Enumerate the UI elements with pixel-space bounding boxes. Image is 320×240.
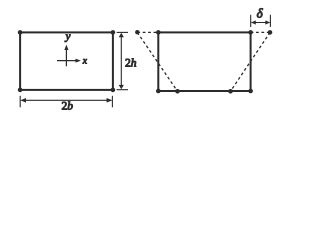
dimension delta left arrowhead	[251, 20, 256, 24]
extension line left for delta	[250, 15, 252, 27]
dimension delta right arrowhead	[265, 20, 270, 24]
dashed deformed left side (tilted)	[137, 32, 177, 91]
svg-text:x: x	[82, 57, 88, 67]
extension line right-top for 2h	[117, 31, 128, 33]
dimension 2h top arrowhead	[119, 33, 124, 37]
corner dot top-left (left plate)	[18, 30, 23, 35]
corner dot bottom-left (right plate)	[156, 89, 161, 94]
svg-text:2b: 2b	[62, 100, 74, 112]
y-axis arrowhead	[64, 45, 68, 50]
dashed deformed top edge extension left	[137, 31, 158, 33]
deformed corner dot top-right outer	[268, 30, 273, 35]
right plate rectangle (undeformed, solid)	[158, 32, 250, 91]
y-axis shaft	[65, 50, 67, 67]
corner dot bottom-left (left plate)	[18, 88, 23, 93]
extension line below bottom-right for 2b	[111, 96, 113, 108]
dimension line 2h	[120, 34, 122, 88]
extension line right for delta	[269, 15, 271, 27]
deformed corner dot bottom-left inner	[175, 89, 180, 94]
dimension line 2b	[22, 99, 112, 101]
deformed corner dot bottom-right inner	[228, 89, 233, 94]
corner dot bottom-right (right plate)	[248, 89, 253, 94]
deformed corner dot top-left outer	[135, 30, 139, 34]
corner dot top-left (right plate)	[156, 30, 161, 35]
corner dot bottom-right (left plate)	[111, 88, 116, 93]
x-axis shaft	[57, 60, 76, 62]
corner dot top-right (right plate)	[248, 30, 253, 35]
x-axis arrowhead	[76, 59, 81, 63]
dimension 2b left arrowhead	[20, 98, 26, 103]
extension line right-bottom for 2h	[117, 89, 128, 91]
left plate rectangle (2b x 2h)	[20, 32, 113, 90]
dashed deformed right side (tilted)	[231, 32, 271, 91]
dimension 2h bottom arrowhead	[119, 85, 124, 89]
dimension 2b right arrowhead	[107, 98, 113, 103]
corner dot top-right (left plate)	[111, 30, 116, 35]
svg-text:y: y	[65, 31, 71, 43]
dashed deformed top edge extension right	[251, 31, 270, 33]
dimension line delta	[252, 22, 270, 24]
svg-text:2h: 2h	[125, 57, 137, 69]
svg-text:δ: δ	[257, 6, 264, 21]
extension line below bottom-left for 2b	[19, 96, 21, 108]
